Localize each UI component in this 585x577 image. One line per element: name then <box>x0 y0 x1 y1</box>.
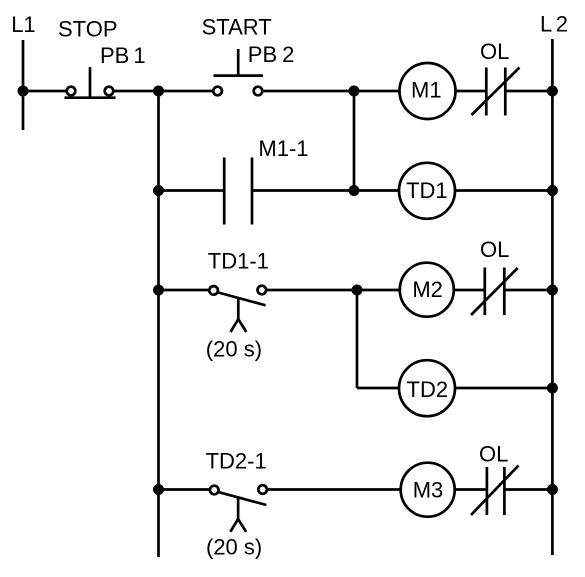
svg-text:TD2: TD2 <box>407 377 449 402</box>
svg-text:TD1-1: TD1-1 <box>208 249 269 274</box>
svg-text:M3: M3 <box>413 478 444 503</box>
svg-text:(20 s): (20 s) <box>206 535 262 560</box>
svg-text:M1: M1 <box>411 78 442 103</box>
svg-text:PB2: PB2 <box>248 42 295 67</box>
svg-text:L1: L1 <box>11 12 35 37</box>
svg-text:STOP: STOP <box>58 16 118 41</box>
svg-text:TD2-1: TD2-1 <box>206 448 267 473</box>
svg-text:(20 s): (20 s) <box>206 336 262 361</box>
svg-text:OL: OL <box>480 39 509 64</box>
svg-text:OL: OL <box>479 441 508 466</box>
svg-text:M1-1: M1-1 <box>258 136 308 161</box>
svg-text:M2: M2 <box>412 277 443 302</box>
svg-text:OL: OL <box>480 237 509 262</box>
svg-text:TD1: TD1 <box>406 178 448 203</box>
svg-text:PB1: PB1 <box>100 43 146 68</box>
svg-text:START: START <box>202 14 272 39</box>
